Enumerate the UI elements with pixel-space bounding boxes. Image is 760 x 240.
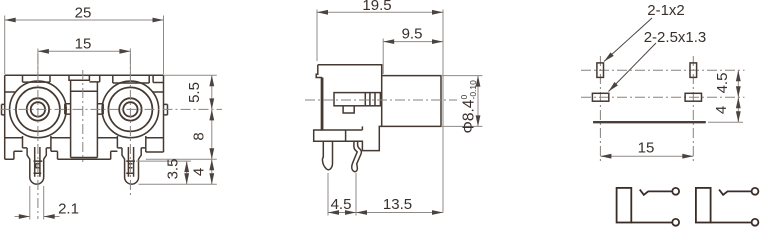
row centerline 1 xyxy=(581,69,745,71)
svg-text:13.5: 13.5 xyxy=(383,196,412,213)
jack 2 tip terminal xyxy=(752,188,759,195)
jack 1 sleeve line xyxy=(631,222,672,224)
column centerline 2 xyxy=(692,56,694,162)
slot 1x2 right xyxy=(690,63,697,78)
svg-text:4.5: 4.5 xyxy=(331,196,352,213)
centerline vertical body middle xyxy=(82,70,84,162)
dimension 4 right view xyxy=(708,97,743,122)
dimension 25 xyxy=(5,16,164,75)
svg-text:5.5: 5.5 xyxy=(186,82,203,103)
top middle notch xyxy=(69,75,89,80)
RCA circles left xyxy=(10,81,67,138)
dimension 19.5 xyxy=(317,10,443,213)
jack 1 tip contact xyxy=(640,190,673,195)
dimension 9.5 xyxy=(383,39,443,75)
body outline xyxy=(5,75,164,159)
barrel left edge xyxy=(381,76,383,127)
top right corner step xyxy=(153,75,163,82)
jack 2 tip contact xyxy=(719,190,752,195)
tab circle2 to channel xyxy=(97,104,103,114)
right leg xyxy=(122,148,141,184)
jack 2 sleeve terminal xyxy=(752,219,759,226)
column centerline 1 xyxy=(599,56,601,162)
slot 2.5x1.3 left xyxy=(592,93,608,101)
jack 2 sleeve line xyxy=(711,222,752,224)
bottom profile left half xyxy=(5,148,111,159)
top blocks line left xyxy=(23,75,51,82)
RCA circles right xyxy=(102,81,159,138)
left leg inner pin xyxy=(34,147,43,177)
ledge top xyxy=(321,126,362,130)
side tab left xyxy=(2,104,5,115)
left leg xyxy=(27,148,46,184)
contact tab xyxy=(343,106,354,113)
corner shelf lines xyxy=(5,92,164,138)
dimension 4.5 right view xyxy=(737,70,739,97)
svg-text:15: 15 xyxy=(638,140,655,157)
bent pin xyxy=(352,141,362,171)
right leg inner pin xyxy=(126,147,135,177)
pedestal right xyxy=(117,136,145,148)
dimension 2.1 xyxy=(15,186,60,220)
bottom profile right half xyxy=(111,148,164,159)
svg-text:4.5: 4.5 xyxy=(714,73,731,94)
svg-text:-0.10: -0.10 xyxy=(468,80,478,100)
straight pin xyxy=(322,141,332,170)
svg-text:2-1x2: 2-1x2 xyxy=(647,2,685,19)
contact bar hatch xyxy=(365,93,375,106)
svg-text:Φ8.4: Φ8.4 xyxy=(461,99,478,133)
leader 2-1x2 xyxy=(604,18,652,62)
centerline horizontal through circles xyxy=(1,108,223,110)
dimension 5.5 xyxy=(164,75,217,109)
jack 1 sleeve terminal xyxy=(672,219,679,226)
pedestal left xyxy=(23,136,51,148)
slot 1x2 left xyxy=(597,63,604,78)
tab circle1 to channel xyxy=(65,104,71,114)
dimension phi 8.4 xyxy=(441,76,483,127)
svg-text:15: 15 xyxy=(75,36,92,53)
svg-text:4: 4 xyxy=(713,106,730,114)
dimension 15 xyxy=(38,49,130,76)
svg-text:4: 4 xyxy=(191,168,208,176)
dimension 3.5 xyxy=(136,161,191,184)
jack 1 tip terminal xyxy=(672,188,679,195)
centerline middle view xyxy=(305,99,457,101)
contact bar xyxy=(334,93,380,106)
center channel xyxy=(71,80,98,157)
svg-text:8: 8 xyxy=(191,132,208,140)
inner wall xyxy=(322,78,324,131)
jack symbol 2 body xyxy=(696,188,711,223)
centerline vertical circle 2 xyxy=(129,54,131,196)
svg-text:19.5: 19.5 xyxy=(362,0,391,14)
leader 2-2.5x1.3 xyxy=(609,43,657,92)
top step right of notch xyxy=(89,75,99,82)
jack symbol 1 body xyxy=(617,188,632,223)
ledge divider xyxy=(345,130,347,141)
dimension 4.5 / 13.5 bottom xyxy=(328,173,443,216)
row centerline 2 xyxy=(581,96,745,98)
side tab right xyxy=(164,104,168,115)
svg-text:3.5: 3.5 xyxy=(165,159,182,180)
top blocks line right xyxy=(113,75,149,83)
svg-text:25: 25 xyxy=(75,5,92,22)
dimension 15 right view xyxy=(600,155,693,157)
svg-text:2.1: 2.1 xyxy=(58,201,79,218)
dimension 4 xyxy=(139,159,217,184)
slot 2.5x1.3 right xyxy=(685,93,701,101)
pcb edge thick line xyxy=(593,121,706,123)
svg-text:2-2.5x1.3: 2-2.5x1.3 xyxy=(644,29,707,46)
dimension 8 xyxy=(146,109,217,159)
body outline xyxy=(314,65,441,151)
svg-text:9.5: 9.5 xyxy=(402,26,423,43)
centerline vertical circle 1 xyxy=(37,54,39,219)
